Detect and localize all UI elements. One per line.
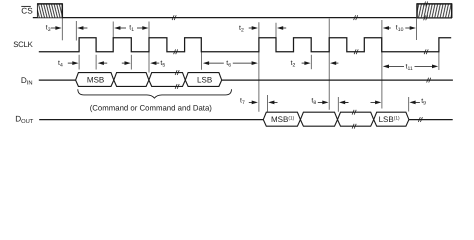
arrowhead t4 left-pointing [98,61,104,65]
arrow t9 right-pointing tail dash [345,101,349,103]
tick SCLK rise 9 (t11 right) [438,52,440,70]
DOUT bus segment MSB(1) [263,112,300,126]
svg-text:MSB: MSB [87,76,104,85]
arrowhead t2 right-pointing [252,26,258,30]
arrowhead t1 left [114,26,120,30]
arrow t10 right-pointing [405,27,410,29]
tick t2 right (SCLK fall 5) [275,23,277,38]
CS don't-care hatch box 2 [417,3,452,18]
tick CS rising edge (t10 right) [416,18,418,40]
arrowhead t5 right-pointing [125,61,131,65]
DOUT bus segment 2 [300,112,337,126]
arrow t7 left-pointing [272,101,278,103]
CS don't-care hatch box 1 [37,3,62,18]
arrowhead t11 left [383,65,389,69]
break on DOUT segment 3 top [352,110,356,115]
arrowhead t2-right left-pointing [330,61,336,65]
arrowhead t7 right-pointing [252,101,258,105]
wire DIN trailing [222,79,453,81]
arrowhead t10 right [410,26,416,30]
arrow t3 right-pointing [51,27,57,29]
break on DIN segment 3 top [175,70,179,75]
arrow t1 left tip [120,27,127,29]
wire DOUT lead-in [39,119,263,121]
wire DIN lead-in [39,79,76,81]
tick t9 right (DOUT LSB end) [408,97,410,112]
tick t4 right (SCLK fall 1) [95,55,97,70]
svg-text:SCLK: SCLK [13,40,33,49]
arrow t9 left-pointing [413,101,420,103]
break on DOUT trailing wire [418,117,422,122]
label CS (overline) [21,6,33,15]
break on CS hatch box 2 bottom edge [424,15,428,20]
arrow t11 left tip shaft [387,65,404,67]
tick CS falling edge (t3 left) [61,18,63,40]
arrow t3 left-pointing [82,27,87,29]
arrowhead t3 left [77,26,83,30]
arrowhead t5 left-pointing [150,61,156,65]
arrow t1 right tip [137,27,143,29]
tick long SCLK fall 8 (t9/t10/t11 left) [381,20,383,109]
arrowhead t7 left-pointing [268,101,274,105]
arrow t2-right right-pointing [302,62,306,64]
arrowhead t1 right [142,26,148,30]
wire CS baseline [33,17,417,19]
arrow t8 left-pointing [343,101,349,103]
arrowhead t4 right-pointing [72,61,78,65]
break on CS hatch box 2 top edge [424,2,428,7]
DOUT bus segment LSB(1) [374,112,409,126]
wire SCLK waveform [39,38,451,52]
arrowhead t3 right [55,26,61,30]
tick t7 right (DOUT MSB valid) [267,95,269,112]
arrow t2 left-pointing [282,27,287,29]
arrowhead t9 left-pointing [409,101,415,105]
tick t5 left (SCLK fall 2) [130,55,132,70]
arrowhead t2 left-pointing [277,26,283,30]
tick t1 left (SCLK rise 2) [112,22,114,38]
break on SCLK low (far right) [424,49,428,54]
tick t8 right (DOUT data change) [337,97,339,112]
arrow t5 right-pointing [122,62,126,64]
tick t3 right (DIN start) [75,21,77,41]
wire DOUT trailing [409,119,453,121]
arrow t6 right tip shaft [233,62,253,64]
arrowhead t10 left [383,26,389,30]
break on DIN trailing wire [427,78,431,83]
arrow t8 right-pointing [318,101,323,103]
arrow t9 right-pointing [371,101,376,103]
arrow t4 right-pointing [68,62,73,64]
break on DOUT segment 3 bottom [352,124,356,129]
break on SCLK low (left group) [174,49,178,54]
tick t6 left (SCLK fall 4) [200,52,202,70]
svg-text:(Command or Command and Data): (Command or Command and Data) [90,104,213,113]
break on CS wire (left) [172,15,176,20]
DOUT bus segment 3 [338,112,374,126]
tick long SCLK rise 5 (t2 left, t6 right, t7 left) [258,22,260,112]
arrow t6 left tip shaft [207,62,224,64]
svg-text:LSB: LSB [197,76,212,85]
tick t1 right / t5 right (SCLK rise 3) [148,22,150,73]
svg-text:CS: CS [21,7,33,16]
DIN bus segment 2 [114,73,149,87]
tick long SCLK rise 7 (t8 left) [328,19,330,110]
arrow t2 right-pointing [249,27,253,29]
DIN bus segment LSB [185,73,221,87]
break on SCLK low (right group) [354,49,358,54]
arrow t10 left-pointing [388,27,391,29]
arrowhead t6 right [252,61,258,65]
tick t2b-right (SCLK fall 6) [310,55,312,69]
arrowhead t2-right right-pointing [304,61,310,65]
DIN bus segment 3 [149,73,185,87]
tick t4 left (SCLK rise 1) [78,55,80,70]
arrowhead t8 right-pointing [322,101,328,105]
arrowhead t8 left-pointing [339,101,345,105]
arrowhead t6 left [203,61,209,65]
break on DIN segment 3 bottom [175,84,179,89]
arrow t5 left-pointing [154,62,160,64]
arrowhead t11 right [432,65,438,69]
arrowhead t9 right-pointing [375,101,381,105]
DIN bus segment MSB [76,73,114,87]
arrow t4 left-pointing [101,62,107,64]
break on CS wire (right) [354,15,358,20]
arrow t2-right left-pointing [334,62,339,64]
arrow t7 right-pointing [249,101,253,103]
arrow t11 right tip shaft [415,65,435,67]
brace under DIN command [78,89,232,98]
